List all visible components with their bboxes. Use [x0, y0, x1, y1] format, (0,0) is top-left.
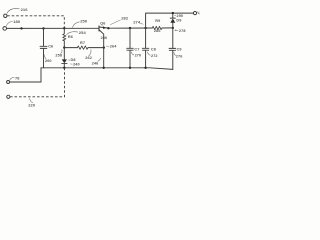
label 254 — [66, 30, 86, 35]
node dot D9/C9 junction on rail — [172, 27, 174, 29]
svg-text:286: 286 — [154, 29, 161, 33]
svg-text:260: 260 — [45, 59, 52, 63]
terminal 216 — [4, 7, 29, 17]
svg-text:C6: C6 — [48, 44, 53, 48]
label 246 — [92, 58, 101, 65]
label 274 — [133, 19, 143, 24]
svg-text:290: 290 — [177, 14, 184, 18]
svg-text:180: 180 — [13, 19, 21, 24]
capacitor C9 — [169, 28, 182, 70]
label 276 — [174, 52, 183, 58]
svg-text:278: 278 — [179, 29, 186, 33]
terminal 220 — [7, 95, 10, 98]
label 262 — [85, 49, 92, 60]
node dot C6 top — [42, 27, 44, 29]
label 272 — [147, 52, 157, 58]
svg-text:216: 216 — [21, 7, 29, 12]
svg-text:272: 272 — [151, 54, 158, 58]
label 220 — [28, 98, 36, 107]
terminal 180 — [3, 19, 21, 30]
label 258 — [55, 50, 62, 58]
resistor R7 — [77, 41, 88, 49]
label 290 — [174, 14, 183, 18]
svg-text:240: 240 — [73, 62, 80, 66]
wire top rail left (base net) — [7, 27, 99, 29]
svg-text:246: 246 — [92, 61, 99, 65]
svg-text:274: 274 — [133, 19, 141, 24]
wire dashed from terminal 220 — [10, 68, 65, 97]
terminal Vo — [193, 11, 201, 16]
capacitor C7 — [127, 28, 140, 68]
svg-text:Q6: Q6 — [100, 22, 105, 26]
capacitor C8 — [142, 28, 156, 68]
label 240 — [70, 62, 80, 66]
label 260 — [44, 54, 52, 63]
svg-text:C8: C8 — [151, 47, 156, 51]
svg-text:R6: R6 — [68, 35, 73, 39]
node dot on rail x21.5 — [20, 27, 22, 29]
svg-text:C9: C9 — [177, 47, 182, 51]
svg-text:D9: D9 — [176, 19, 181, 23]
wire dashed from terminal 216 — [7, 16, 64, 28]
label 270 — [131, 52, 141, 58]
node dot C8 / 274 branch — [144, 27, 146, 29]
node dot C7 bottom — [129, 67, 131, 69]
node dot collector bottom — [103, 67, 105, 69]
node dot C7 top — [129, 27, 131, 29]
diode D8 — [62, 48, 76, 68]
wire bottom rail — [41, 68, 173, 70]
label 256 — [101, 36, 108, 40]
node dot D8 bottom — [63, 67, 65, 69]
resistor R6 — [63, 28, 73, 47]
svg-text:78: 78 — [15, 76, 19, 80]
wire terminal 78 to bottom rail — [10, 68, 41, 82]
node dot midline/collector junction — [103, 46, 105, 48]
capacitor C6 — [40, 28, 53, 67]
wire collector to bottom rail — [103, 48, 105, 68]
svg-text:R9: R9 — [155, 19, 160, 23]
node dot C8 bottom — [144, 67, 146, 69]
wire midline right segment — [88, 47, 104, 49]
svg-text:270: 270 — [135, 54, 142, 58]
svg-text:o: o — [199, 13, 200, 16]
diode D9 — [170, 13, 181, 28]
node dot 216/R6 junction — [63, 27, 65, 29]
node dot Q6 emitter on rail — [107, 27, 109, 29]
wire top rail right (output net) — [108, 27, 152, 29]
wire midline left segment — [64, 47, 77, 49]
label 282 — [110, 16, 129, 25]
node dot D9 top on Vo line — [172, 12, 174, 14]
node dot midline left — [63, 46, 65, 48]
label 250 — [72, 19, 88, 28]
resistor R9 — [152, 19, 173, 33]
label 278 — [175, 29, 186, 33]
svg-text:262: 262 — [85, 56, 92, 60]
svg-text:264: 264 — [110, 45, 117, 49]
svg-text:250: 250 — [80, 19, 88, 24]
terminal 78 — [7, 76, 20, 83]
svg-text:220: 220 — [28, 103, 36, 108]
svg-text:276: 276 — [176, 55, 183, 59]
svg-text:R7: R7 — [80, 41, 85, 45]
svg-text:282: 282 — [121, 16, 129, 21]
label 264 — [106, 45, 117, 49]
svg-text:C7: C7 — [134, 47, 139, 51]
transistor Q6 — [99, 22, 108, 48]
svg-text:254: 254 — [79, 30, 87, 35]
svg-text:258: 258 — [55, 53, 62, 57]
svg-text:256: 256 — [101, 36, 108, 40]
wire branch to Vo line — [146, 13, 194, 28]
